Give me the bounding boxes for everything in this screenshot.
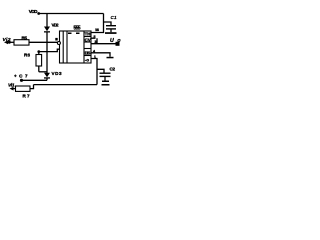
wire GND pin vertical (91, 59, 97, 85)
wire dot terminal to VD3 (22, 79, 48, 81)
svg-text:VD3: VD3 (52, 71, 62, 76)
capacitor C2 (100, 73, 111, 78)
ground under C2 (102, 81, 110, 86)
resistor R7 (16, 86, 31, 91)
capacitor C1 (106, 25, 116, 30)
IC internal top dashes (68, 33, 80, 35)
svg-text:3: 3 (95, 40, 97, 44)
wire jog TR (39, 49, 60, 51)
wire R6 top lead (38, 52, 40, 55)
svg-text:CV: CV (85, 38, 91, 43)
svg-text:Vi2: Vi2 (3, 37, 11, 43)
svg-text:555: 555 (74, 25, 81, 31)
output terminal square (116, 42, 120, 46)
wire C1 stub (104, 22, 112, 25)
svg-text:VD2: VD2 (52, 23, 59, 28)
diode VD3 (44, 73, 50, 79)
wire OUT pin (91, 43, 118, 45)
wire R7 to rail (30, 85, 34, 89)
ground bar right (reset pin) (107, 57, 114, 59)
resistor R6 (36, 55, 42, 67)
wire VDD right drop to VCC pin (91, 14, 104, 33)
wire R6 bottom lead (38, 66, 40, 72)
wire R5 to bubble (29, 41, 58, 43)
wire C2 bottom lead (104, 77, 106, 81)
wire C1 bottom lead (110, 30, 112, 33)
input terminal Vi2 arrow (10, 87, 14, 91)
svg-text:1: 1 (94, 55, 96, 59)
terminal dot node (20, 79, 23, 82)
svg-text:DIS: DIS (85, 50, 91, 55)
svg-text:TH: TH (85, 32, 91, 37)
wire VD3 bottom stub (46, 78, 48, 80)
svg-text:R6: R6 (24, 52, 30, 57)
resistor R5 (14, 40, 29, 45)
diode VD2 (44, 27, 50, 33)
svg-text:C1: C1 (111, 15, 117, 20)
wire bottom rail (34, 84, 98, 86)
svg-text:R5: R5 (22, 35, 28, 40)
wire VDD rail (38, 13, 104, 15)
svg-text:+C7: +C7 (14, 74, 28, 79)
input terminal Vi1 arrow (4, 40, 11, 44)
svg-text:Vi1: Vi1 (8, 83, 15, 89)
IC U1 body (60, 31, 92, 63)
wire VD2 to VD3 vertical (46, 32, 48, 73)
node dot R6 top (37, 50, 40, 53)
ground under C1 (105, 32, 117, 34)
svg-text:4: 4 (93, 49, 95, 53)
wire C2 stub (97, 69, 104, 72)
node dot VDD (37, 12, 40, 15)
svg-text:VDD: VDD (29, 9, 38, 15)
bubble on trigger input (57, 42, 60, 45)
svg-text:R7: R7 (23, 93, 30, 98)
svg-text:5: 5 (94, 35, 96, 39)
wire VD2 branch vertical (46, 14, 48, 27)
svg-text:-o: -o (85, 58, 89, 63)
wire input1 lead (6, 41, 15, 43)
wire input2 lead (11, 88, 16, 90)
pin mark square on IC left (55, 38, 57, 41)
svg-text:C2: C2 (110, 66, 116, 71)
IC pin box texts (85, 32, 91, 63)
wire R6 to VD3 (39, 71, 47, 73)
wire reset pin to gnd (91, 53, 110, 57)
wire pin5 corner (91, 38, 97, 44)
